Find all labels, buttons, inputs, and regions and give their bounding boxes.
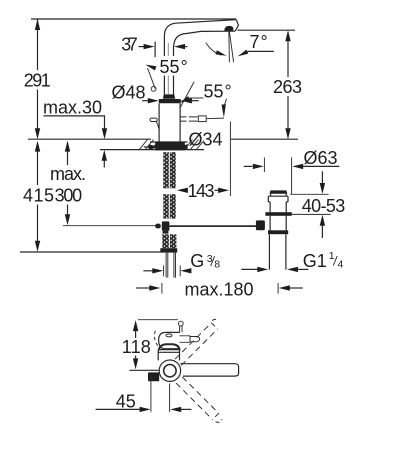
dimension max.180 — [136, 279, 303, 299]
svg-text:263: 263 — [273, 77, 302, 97]
deck hatching right of shank — [185, 140, 205, 150]
dimension G 1 1/4 — [241, 250, 343, 272]
angle annotation 55 deg upper — [145, 56, 193, 91]
drain lower body — [270, 216, 286, 231]
deck edge block — [148, 372, 159, 381]
spout tip and end face — [235, 20, 239, 32]
supply hose nut right — [170, 234, 177, 248]
drain lower nut band — [268, 230, 288, 234]
svg-text:45: 45 — [116, 392, 136, 412]
front view pivot outer circle — [159, 360, 180, 381]
spout riser tube — [164, 20, 236, 95]
front view pivot inner circle — [164, 365, 176, 377]
extension line for 143 — [229, 122, 231, 197]
front view body shoulder crescent — [159, 344, 180, 350]
countertop deck top line — [28, 138, 298, 140]
pull rod dashes in body — [180, 116, 224, 122]
fitting lower block — [163, 231, 169, 234]
dimension 45 — [96, 375, 192, 413]
svg-text:G1: G1 — [303, 251, 327, 271]
svg-text:max.: max. — [50, 164, 86, 184]
dimension 143 — [177, 181, 229, 201]
upper dashed arm — [175, 319, 218, 365]
dimension 291 — [24, 19, 51, 139]
dimension 37 — [121, 34, 187, 57]
threaded shank upper segment — [163, 152, 175, 188]
dimension diameter 63 — [244, 148, 340, 194]
svg-text:max.30: max.30 — [43, 98, 102, 118]
wire top right reference line — [237, 29, 295, 31]
svg-text:7°: 7° — [250, 32, 268, 52]
svg-text:4: 4 — [338, 258, 344, 270]
angle annotation 55 deg spout swivel — [179, 82, 231, 118]
svg-text:37: 37 — [121, 34, 138, 54]
dimension diameter 48 — [112, 82, 199, 103]
svg-text:55°: 55° — [160, 57, 188, 77]
svg-text:8: 8 — [214, 258, 220, 270]
svg-text:Ø48: Ø48 — [112, 82, 146, 102]
drain flange outline — [268, 194, 288, 202]
leader 7 deg — [238, 32, 274, 56]
svg-text:415: 415 — [23, 185, 54, 205]
drain upper body — [270, 202, 286, 212]
dimension 40-53 — [290, 171, 345, 238]
drain rod knob — [256, 220, 265, 230]
wire deck line front view — [129, 369, 158, 371]
wire top reference line 291 — [31, 18, 236, 20]
svg-text:55°: 55° — [204, 82, 232, 102]
front view body — [158, 350, 179, 361]
wire bottom reference line 415 — [20, 251, 161, 253]
base plate bottom edge — [150, 141, 191, 143]
dimension diameter 34 — [144, 130, 228, 150]
pop-up rod cross fitting — [162, 221, 170, 230]
drain tailpipe — [269, 234, 286, 269]
arc arrow 7 deg — [206, 43, 227, 56]
svg-text:143: 143 — [188, 181, 215, 201]
svg-text:40-53: 40-53 — [302, 196, 346, 216]
stream angle lines 7 deg — [229, 30, 234, 62]
lower dashed arm — [176, 377, 222, 423]
wire top extension line 118 — [138, 319, 178, 321]
drain pop-up plug cap — [270, 190, 288, 193]
front view body band — [158, 350, 179, 353]
threaded shank lower segment — [163, 194, 175, 218]
faucet body outline — [159, 103, 180, 142]
dimension G 3/8 — [143, 251, 220, 276]
wire pop-up rod line left segment — [63, 225, 156, 227]
spout flare wedge — [163, 94, 175, 98]
supply hose collar bar — [160, 248, 177, 252]
deck hatching left of shank — [140, 140, 159, 150]
faucet cap band — [159, 99, 181, 103]
dimension 415 — [23, 141, 54, 252]
spout aerator — [224, 26, 233, 31]
svg-text:300: 300 — [55, 185, 83, 205]
front view horizontal spout arm — [180, 364, 238, 376]
lever handle — [150, 118, 159, 129]
dimension max.300 — [50, 141, 86, 226]
front view spout stub — [180, 336, 200, 343]
svg-text:1: 1 — [329, 250, 335, 262]
countertop deck bottom line — [100, 149, 204, 151]
drain seal band — [265, 212, 291, 216]
svg-text:291: 291 — [24, 70, 51, 90]
faucet base flange block — [155, 142, 185, 151]
supply hose nut left — [162, 234, 169, 248]
front view lever — [154, 331, 179, 349]
front view pull rod knob — [178, 321, 183, 332]
svg-text:Ø34: Ø34 — [189, 130, 223, 150]
svg-text:max.180: max.180 — [185, 279, 254, 299]
dimension 263 — [273, 30, 302, 139]
dimension max.30 deck thickness — [43, 98, 107, 168]
svg-text:Ø63: Ø63 — [304, 148, 338, 168]
pop-up rod left knob — [155, 224, 161, 229]
wire pop-up rod right segment — [169, 225, 256, 227]
supply hose tails — [166, 253, 175, 278]
svg-text:G: G — [190, 251, 204, 271]
dimension 118 — [122, 320, 151, 369]
svg-text:118: 118 — [122, 337, 151, 357]
